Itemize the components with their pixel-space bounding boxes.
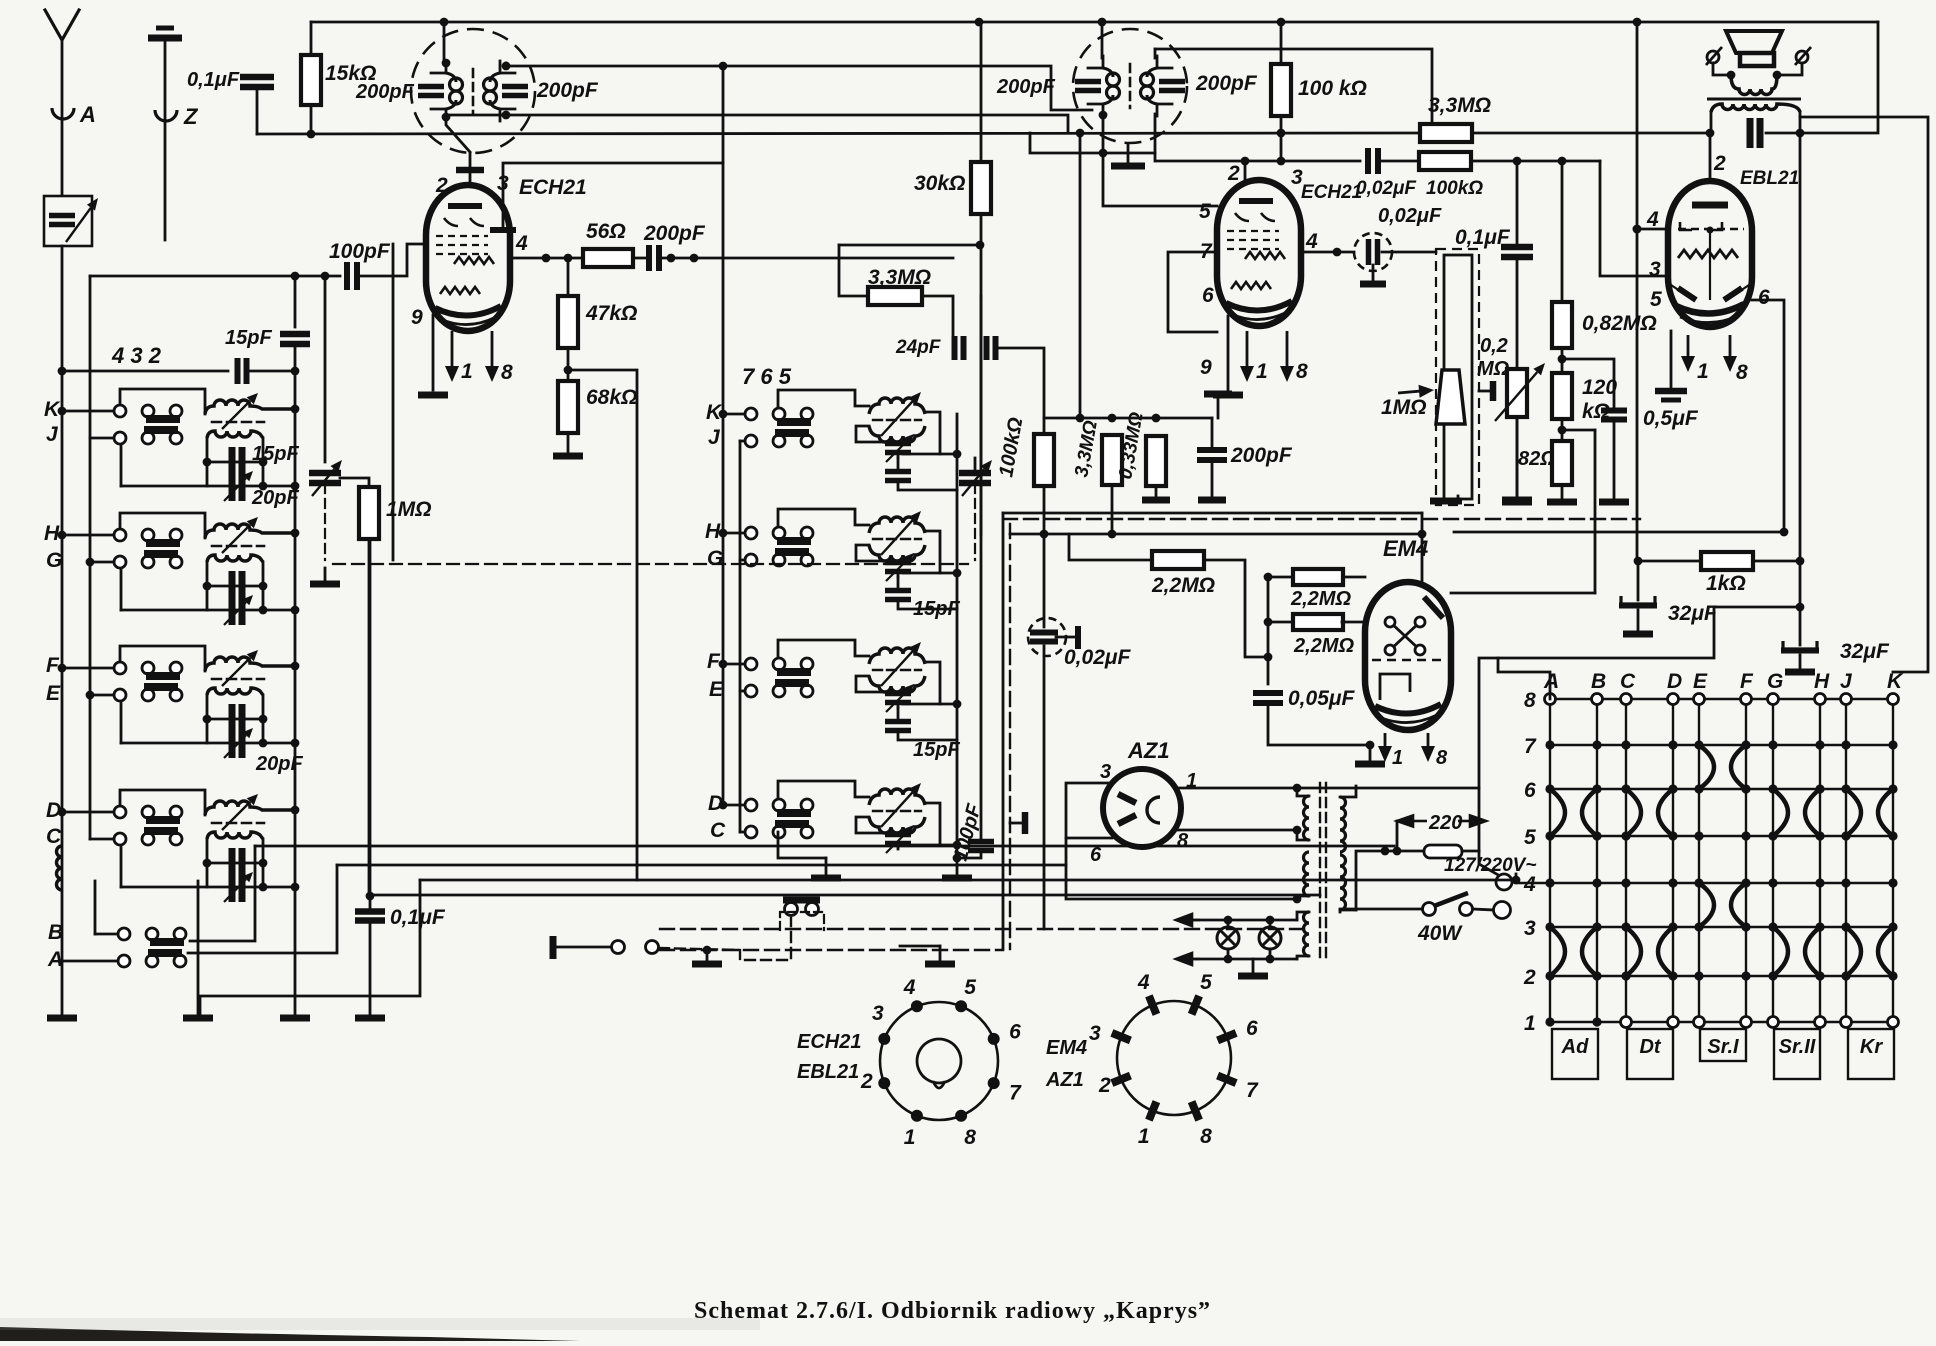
svg-text:H: H: [44, 522, 60, 545]
line y161 left: [1157, 160, 1360, 163]
band box Dt: [1627, 1029, 1673, 1079]
antenna trimmer arrow: [66, 198, 98, 242]
100k det bottom: [1043, 486, 1046, 627]
osc F/E coil upper winding: [869, 648, 925, 664]
2,2M mid left: [1069, 534, 1150, 560]
row wire E: [90, 694, 114, 697]
matrix link F7-6: [1731, 745, 1746, 789]
chassis dashed left: [1009, 524, 1011, 949]
antenna symbol: [45, 10, 79, 40]
matrix junction A5: [1545, 831, 1554, 840]
svg-text:D: D: [1667, 670, 1682, 693]
gang2 top: [974, 458, 977, 473]
x1595 down: [1594, 430, 1597, 593]
socket1 pin 5: [955, 1000, 967, 1012]
EM4 anode box: [1380, 674, 1410, 700]
band K/J antenna switch bridge top: [146, 415, 180, 423]
svg-text:200pF: 200pF: [1195, 72, 1258, 95]
svg-text:1: 1: [1138, 1125, 1150, 1148]
B+ line y561 right: [1753, 560, 1800, 563]
gang1 link dash: [324, 484, 326, 560]
socket2 pin 7: [1218, 1076, 1237, 1084]
node out right: [1796, 129, 1805, 138]
matrix row 5: [1550, 835, 1893, 837]
osc F/E switch contact top 1: [745, 658, 757, 670]
band K/J antenna switch contact bottom 3: [170, 432, 182, 444]
node T1 prim bottom: [442, 113, 451, 122]
osc K/J coil upper winding: [869, 398, 925, 414]
earth Z lead wire: [164, 42, 167, 240]
V2 pin5 wire: [1103, 119, 1217, 206]
EM4 res upper leads: [1268, 576, 1293, 579]
matrix junction B7: [1592, 740, 1601, 749]
osc H/G series cap: [885, 591, 911, 600]
band K/J antenna padder arrow: [224, 471, 253, 501]
second rail: [89, 276, 92, 839]
output transformer left lead: [1710, 112, 1713, 133]
lamp ground: [1238, 973, 1268, 980]
node osc rail top: [719, 62, 728, 71]
capacitor 0,1uF mid: [1501, 247, 1533, 257]
IF transformer T1: [411, 29, 535, 153]
socket1 pin 1: [911, 1110, 923, 1122]
osc feedback wire: [568, 370, 637, 880]
svg-text:6: 6: [1246, 1017, 1258, 1040]
pickup contact b: [646, 941, 659, 954]
scan edge artifact: [0, 1327, 580, 1341]
band K/J antenna switch contact top 3: [170, 405, 182, 417]
node chain a: [1558, 355, 1567, 364]
matrix contact row1 J: [1841, 1017, 1852, 1028]
band K/J antenna coil bus node: [291, 405, 300, 414]
node EM4 rail top: [1264, 573, 1273, 582]
matrix contact row1 C: [1621, 1017, 1632, 1028]
osc F/E series link: [897, 708, 900, 721]
svg-text:AZ1: AZ1: [1127, 738, 1170, 763]
100k det lower tail: [1043, 646, 1046, 929]
svg-text:5: 5: [1524, 826, 1536, 849]
V1 pin4 wire: [510, 257, 582, 260]
T2 gnd wire: [1127, 144, 1130, 162]
svg-text:6: 6: [1524, 779, 1536, 802]
svg-text:Kr: Kr: [1860, 1036, 1883, 1058]
wire 15k bottom: [310, 105, 313, 134]
IF transformer T2 secondary bottom lead: [1156, 104, 1159, 116]
svg-text:7: 7: [1246, 1079, 1259, 1102]
IF transformer T2 secondary coil: [1141, 73, 1154, 99]
matrix row 8: [1550, 698, 1893, 700]
band H/G antenna padder bus: [291, 606, 300, 615]
band D/C antenna loop top: [120, 790, 205, 815]
node B+ transformer: [1293, 784, 1302, 793]
svg-text:2,2MΩ: 2,2MΩ: [1293, 635, 1354, 657]
band D/C antenna lower coil: [207, 832, 263, 839]
T2 secondary bottom wire: [1154, 114, 1157, 161]
svg-text:ECH21: ECH21: [1301, 182, 1362, 203]
svg-text:Sr.I: Sr.I: [1707, 1036, 1739, 1058]
svg-text:J: J: [708, 426, 721, 449]
osc K/J trimmer arrow: [886, 434, 914, 462]
node x370: [366, 892, 375, 901]
100pF bottom link: [957, 852, 981, 858]
svg-text:Ad: Ad: [1561, 1036, 1589, 1058]
resistor 3,3MOhm IF: [868, 287, 922, 305]
node rail H: [58, 531, 67, 540]
svg-text:32μF: 32μF: [1840, 640, 1890, 663]
node chain b: [1558, 426, 1567, 435]
long wire y880: [420, 879, 1516, 882]
x1562 upper: [1561, 161, 1564, 302]
1M top: [340, 478, 369, 487]
svg-text:6: 6: [1758, 286, 1770, 309]
top ground bar: [1204, 391, 1232, 398]
svg-text:1MΩ: 1MΩ: [1381, 396, 1427, 419]
IF transformer T2 primary coil: [1107, 73, 1120, 99]
T2 primary bottom wire: [1102, 115, 1105, 119]
100pF input wire: [90, 275, 340, 278]
node osc bus F: [953, 700, 962, 709]
capacitor 0,5uF plates: [1655, 391, 1687, 400]
band F/E antenna lower coil: [207, 688, 263, 695]
node osc bus K: [953, 450, 962, 459]
osc H/G coil right out: [903, 531, 940, 573]
svg-text:9: 9: [1200, 356, 1212, 379]
osc H/G switch contact bottom 1: [745, 554, 757, 566]
svg-text:120: 120: [1582, 376, 1617, 399]
osc D/C trim down: [897, 844, 900, 849]
band K/J antenna switch contact bottom 2: [142, 432, 154, 444]
resistor 100kOhm coupling: [1419, 152, 1471, 170]
AZ1 pin6 wire: [1066, 837, 1112, 840]
gang2 link dash: [974, 484, 976, 560]
node 32uF1: [1634, 557, 1643, 566]
wire row B: [95, 933, 118, 936]
svg-text:9: 9: [411, 306, 423, 329]
capacitor 24pF b: [987, 336, 996, 360]
svg-text:0,02μF: 0,02μF: [1064, 646, 1132, 669]
svg-text:24pF: 24pF: [895, 337, 942, 358]
band D/C antenna padder arrow: [224, 872, 253, 902]
IF transformer T2 primary shoulders: [1103, 68, 1113, 104]
node screen top: [1633, 18, 1642, 27]
osc F/E series out: [898, 731, 957, 740]
matrix junction F4: [1741, 878, 1750, 887]
V1 pin3 top wire: [503, 163, 723, 230]
matrix row4 feed: [1516, 882, 1550, 884]
node T1 sec bottom: [502, 111, 511, 120]
osc D/C coil right out: [903, 803, 940, 845]
socket2 pin 5: [1192, 996, 1200, 1015]
band H/G antenna core dashes: [212, 545, 264, 548]
pickup ground: [692, 961, 722, 968]
osc F/E coil tuning arrow: [881, 642, 921, 686]
osc row G: [740, 559, 745, 562]
matrix link B3-2: [1582, 927, 1597, 976]
socket2 pin 1: [1149, 1102, 1157, 1121]
32uF1 ground: [1623, 631, 1653, 638]
band F/E antenna padder bus: [291, 739, 300, 748]
matrix contact row8 J: [1841, 694, 1852, 705]
node pin5 junction: [1099, 149, 1108, 158]
T1 secondary top wire: [505, 63, 508, 66]
lamp gnd stub: [1252, 959, 1255, 972]
B bridge: [150, 938, 184, 946]
EBL21 diode plate left: [1678, 288, 1696, 300]
32uF1 gnd stub: [1637, 610, 1640, 630]
left rail: [61, 371, 64, 1014]
capacitor 0,1uF antenna: [240, 77, 274, 87]
matrix link J3-2: [1846, 927, 1861, 976]
wire row A: [62, 960, 118, 963]
svg-text:4: 4: [1305, 230, 1318, 253]
osc row E: [740, 690, 745, 693]
IF transformer T2 secondary cap link top: [1157, 67, 1172, 70]
resistor 2,2MOhm EM4 lower: [1293, 614, 1343, 630]
node osc H: [719, 529, 728, 538]
n l2t: [1266, 916, 1275, 925]
heater bottom lead: [1297, 956, 1309, 959]
capacitor 32uF first: [1619, 596, 1657, 606]
bus y115: [446, 115, 1068, 133]
antenna bank bus lower: [294, 345, 297, 1014]
band K/J antenna switch contact bottom 1: [114, 432, 126, 444]
grid cap ECH21-1: [456, 152, 484, 186]
981 rail lower: [980, 296, 983, 535]
svg-text:C: C: [1620, 670, 1636, 693]
32uF1 stub: [1637, 561, 1640, 600]
matrix junction A2: [1545, 971, 1554, 980]
band F/E antenna trim right: [259, 715, 268, 724]
matrix junction E2: [1694, 971, 1703, 980]
node tap a: [1381, 847, 1390, 856]
lamp1 top stub: [1227, 920, 1230, 927]
band K/J antenna trim right: [259, 458, 268, 467]
svg-text:1: 1: [1256, 360, 1268, 383]
band D/C antenna padder 20pF: [232, 872, 242, 902]
svg-text:A: A: [79, 102, 96, 127]
svg-text:3: 3: [1089, 1022, 1101, 1045]
A contact 3: [174, 955, 186, 967]
svg-text:6: 6: [1009, 1021, 1021, 1044]
wire B rail: [94, 881, 97, 934]
lamp2 bottom stub: [1269, 949, 1272, 959]
band H/G antenna padder arrow: [224, 595, 253, 625]
output transformer right lead: [1799, 112, 1802, 133]
dial lamp wire top: [1180, 919, 1297, 922]
tuning gang 1: [309, 473, 341, 483]
matrix junction F5: [1741, 831, 1750, 840]
band K/J antenna upper coil: [205, 400, 295, 414]
mains terminal wire: [1479, 851, 1500, 876]
band H/G antenna padder right: [259, 606, 268, 615]
span arrows 220: [1397, 816, 1486, 827]
IF transformer T1 secondary bottom lead: [499, 109, 502, 121]
svg-text:F: F: [1740, 670, 1754, 693]
antenna lead wire: [61, 38, 64, 195]
matrix link K3-2: [1878, 927, 1893, 976]
primary winding upper: [1340, 797, 1346, 852]
tone pot 0,2M body: [1507, 369, 1527, 417]
A contact 2: [146, 955, 158, 967]
osc F/E series cap: [885, 722, 911, 731]
matrix link D6-5: [1658, 789, 1673, 836]
matrix contact row8 G: [1768, 694, 1779, 705]
svg-text:0,02μF: 0,02μF: [1356, 178, 1417, 199]
node 100k right y133: [1277, 129, 1286, 138]
tap drop left: [1396, 821, 1399, 851]
capacitor 200pF det: [1197, 450, 1227, 460]
svg-text:0,1μF: 0,1μF: [187, 69, 240, 91]
band H/G antenna left drop: [120, 569, 123, 610]
node sec mid: [1293, 826, 1302, 835]
primary tap wire: [1356, 851, 1422, 910]
chassis dashed bottom b: [660, 949, 1003, 951]
wire 15k top to bus: [310, 22, 313, 55]
x370 ground: [355, 1015, 385, 1022]
band D/C antenna left vert: [206, 839, 209, 887]
AZ1 filament bar bottom: [1118, 815, 1136, 824]
band F/E antenna switch bridge bottom: [144, 683, 178, 691]
grid line V1: [392, 244, 395, 560]
IF transformer T1 secondary cap link bot: [500, 108, 515, 111]
matrix row 6: [1550, 788, 1893, 790]
mains terminal circle b: [1494, 902, 1511, 919]
svg-text:8: 8: [1200, 1125, 1212, 1148]
band K/J antenna padder 20pF: [232, 471, 242, 501]
svg-text:6: 6: [1202, 284, 1214, 307]
node 100pF b: [321, 272, 330, 281]
band F/E antenna trim left: [203, 715, 212, 724]
node rail D: [58, 808, 67, 817]
matrix junction J5: [1841, 831, 1850, 840]
volume pot body: [1444, 255, 1472, 499]
svg-text:K: K: [1887, 670, 1904, 693]
capacitor 100pF input: [347, 262, 357, 290]
resistor 2,2MOhm EM4 upper: [1293, 569, 1343, 585]
lamp1 bottom stub: [1227, 949, 1230, 959]
svg-text:G: G: [707, 547, 723, 570]
long wire y846: [255, 845, 1394, 848]
svg-text:200pF: 200pF: [1230, 444, 1293, 467]
node trio c: [1152, 414, 1161, 423]
mains transformer core b: [1325, 783, 1327, 958]
band D/C antenna core dashes: [212, 822, 264, 825]
osc K/J switch bridge bottom: [775, 429, 809, 437]
node sec low: [1293, 895, 1302, 904]
svg-text:E: E: [1693, 670, 1708, 693]
svg-text:0,1μF: 0,1μF: [390, 906, 446, 929]
osc F/E out right: [940, 703, 957, 706]
osc K/J switch contact top 2: [773, 408, 785, 420]
matrix junction H2: [1815, 971, 1824, 980]
band K/J antenna trimmer wire: [207, 461, 263, 464]
B contact 3: [174, 928, 186, 940]
socket1 pin 7: [988, 1077, 1000, 1089]
osc D/C switch contact bottom 2: [773, 826, 785, 838]
band F/E antenna coil bus node: [291, 662, 300, 671]
capacitor 0,05uF: [1253, 693, 1283, 703]
svg-text:1: 1: [1392, 747, 1403, 769]
osc H/G switch contact bottom 2: [773, 554, 785, 566]
IF transformer T1 secondary cap: [502, 87, 528, 96]
osc H/G trim down: [897, 572, 900, 577]
svg-text:1kΩ: 1kΩ: [1706, 572, 1746, 595]
pickup gnd node: [703, 946, 712, 955]
osc gnd stub: [956, 858, 959, 874]
matrix junction G2: [1768, 971, 1777, 980]
band D/C antenna trim left: [203, 859, 212, 868]
pickup jack frame: [780, 912, 824, 930]
osc inner rail: [739, 441, 742, 832]
tone pot bottom: [1516, 417, 1519, 498]
wire cap out: [659, 257, 953, 260]
svg-text:3: 3: [1100, 761, 1111, 783]
svg-text:5: 5: [964, 976, 976, 999]
matrix junction G4: [1768, 878, 1777, 887]
matrix junction D5: [1668, 831, 1677, 840]
band F/E antenna switch contact bottom 1: [114, 689, 126, 701]
node left rail K: [58, 367, 67, 376]
band H/G antenna switch contact bottom 3: [170, 556, 182, 568]
socket area gnd wire: [939, 946, 942, 960]
band K/J antenna switch contact top 1: [114, 405, 126, 417]
band H/G antenna padder wire: [121, 609, 295, 612]
node tap b: [1393, 847, 1402, 856]
IF transformer T1 primary bottom lead: [445, 109, 448, 121]
osc D/C switch bridge top: [777, 809, 811, 817]
matrix junction K5: [1888, 831, 1897, 840]
osc K/J coil left down: [856, 426, 898, 442]
secondary low lead: [1297, 896, 1309, 899]
svg-text:3: 3: [1649, 258, 1661, 281]
matrix junction H5: [1815, 831, 1824, 840]
tone pot arrow: [1495, 363, 1545, 421]
svg-text:2: 2: [1098, 1074, 1111, 1097]
matrix junction C2: [1621, 971, 1630, 980]
x1801 vertical: [1799, 133, 1802, 607]
voice coil: [1731, 75, 1777, 95]
svg-text:ECH21: ECH21: [519, 176, 587, 199]
row wire H: [62, 534, 114, 537]
svg-text:100kΩ: 100kΩ: [995, 415, 1027, 478]
matrix row 3: [1550, 926, 1893, 928]
node 100pF a: [291, 272, 300, 281]
feedthrough cap out wire: [1382, 251, 1436, 254]
matrix junction E7: [1694, 740, 1703, 749]
cathode tap wire: [1562, 429, 1595, 432]
band K/J antenna left drop: [120, 445, 123, 486]
node pin6 branch: [1780, 528, 1789, 537]
IF transformer T1 primary cap link bot: [431, 108, 446, 111]
socket area wire: [900, 945, 940, 948]
matrix junction J4: [1841, 878, 1850, 887]
pickup dashed link: [659, 948, 740, 960]
line y161 right: [1471, 160, 1600, 163]
svg-text:EM4: EM4: [1046, 1037, 1087, 1059]
second rail ground: [183, 1015, 213, 1022]
68k bottom wire: [567, 433, 570, 452]
node trio a: [1076, 414, 1085, 423]
socket diagram EM4/AZ1 circle: [1117, 1001, 1231, 1115]
socket2 pin 2: [1112, 1076, 1131, 1084]
chassis dashed bottom a: [660, 928, 1310, 930]
svg-text:Z: Z: [183, 104, 199, 129]
node V1 pin4 a: [542, 254, 551, 263]
matrix contact row8 C: [1621, 694, 1632, 705]
dial lamp 1: [1217, 927, 1239, 949]
heater top lead: [1297, 912, 1309, 920]
EM4 cathode arc: [1375, 704, 1441, 714]
